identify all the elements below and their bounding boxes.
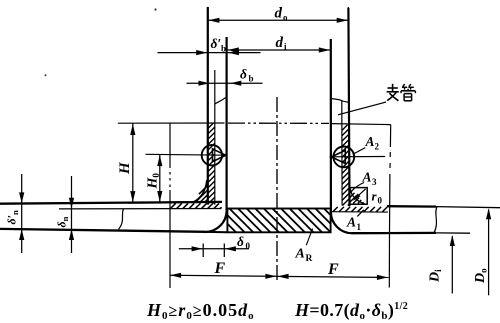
dimension delta_b (nozzle wall) xyxy=(187,82,263,84)
dimension d_o (nozzle outside diameter) xyxy=(208,19,348,21)
right nozzle mid (thickness) line xyxy=(341,101,343,206)
left nozzle break curve xyxy=(215,97,227,104)
svg-text:3: 3 xyxy=(372,177,377,187)
A3 leader line xyxy=(352,183,364,191)
svg-text:H: H xyxy=(117,161,133,175)
zhiguan (branch pipe) leader line xyxy=(338,102,386,115)
scan speck top xyxy=(154,8,156,10)
reinforcement height chain line across bore xyxy=(228,122,329,124)
A1 hatched excess-shell band left xyxy=(170,203,175,208)
svg-text:A: A xyxy=(365,134,375,149)
nozzle vertical centerline (chain) xyxy=(276,97,278,283)
svg-text:A: A xyxy=(295,247,305,262)
right A1 zone bottom boundary line xyxy=(332,211,389,213)
dimension delta_n (shell) xyxy=(71,176,73,253)
shell right plate top surface line (thin part) xyxy=(436,207,500,208)
shell left plate nominal-thickness line xyxy=(59,208,222,210)
svg-text:δ′: δ′ xyxy=(211,36,222,51)
A3 fillet weld square with r0 radius arrow xyxy=(350,188,368,205)
shell left plate break line xyxy=(119,209,124,230)
svg-text:b: b xyxy=(249,74,254,84)
svg-text:2: 2 xyxy=(375,142,380,152)
right reinforcement zone box right edge xyxy=(389,125,391,147)
dimension F (left reinforcement range) xyxy=(170,275,278,276)
dimension delta'_n (shell) xyxy=(21,174,23,253)
right F extension line xyxy=(388,233,390,288)
shell right plate bottom line (thin part) xyxy=(436,232,470,234)
svg-text:R: R xyxy=(306,254,313,264)
dimension H_0 xyxy=(159,155,161,203)
svg-text:H=0.7(do·δb)1/2: H=0.7(do·δb)1/2 xyxy=(294,300,408,322)
right opening flare arc xyxy=(331,212,352,233)
A2 hatched nozzle strip right xyxy=(342,125,347,130)
shell left plate top surface line xyxy=(0,202,222,204)
right nozzle outer wall line xyxy=(348,8,349,206)
right reinforcement zone box top line xyxy=(331,124,391,125)
left weld point symbol (circle) xyxy=(202,145,222,165)
svg-text:A: A xyxy=(346,215,356,230)
left weld point symbol (triangle) xyxy=(213,149,226,162)
shell right plate bottom (inner) surface line (thick part) xyxy=(352,232,437,235)
dimension delta'_b (nozzle wall) xyxy=(158,52,261,54)
svg-text:F: F xyxy=(327,261,339,278)
A_R required reinforcement area (hatched rect) xyxy=(227,209,330,233)
dimension F (right reinforcement range) xyxy=(277,276,389,277)
shell right plate break line xyxy=(434,207,437,233)
left fillet weld boundary curve xyxy=(192,180,207,203)
left opening flare arc xyxy=(205,211,227,232)
H0 level line left (through weld point) xyxy=(146,153,226,156)
svg-text:d: d xyxy=(276,35,284,51)
svg-text:A: A xyxy=(362,170,372,185)
dimension H (reinforcement height) xyxy=(132,123,134,202)
svg-text:F: F xyxy=(214,260,226,277)
left nozzle outer wall line xyxy=(207,7,209,205)
svg-text:d: d xyxy=(275,6,283,22)
label zhiguan (branch pipe, hand-drawn CJK) xyxy=(388,87,398,89)
reinforcement height line H (left, solid) xyxy=(118,122,225,124)
svg-text:δ: δ xyxy=(237,234,244,249)
dimension d_i (nozzle inside diameter) xyxy=(227,49,330,51)
dimension D_o (shell outside diameter) xyxy=(488,210,490,296)
A2 hatched nozzle strip left xyxy=(208,123,213,128)
dimension delta_0 (flare width) xyxy=(179,248,249,250)
A2 leader line xyxy=(353,148,366,155)
dimension D_i (shell inside diameter) xyxy=(451,236,453,293)
svg-text:0: 0 xyxy=(246,241,251,251)
right nozzle inner wall line xyxy=(330,39,332,212)
svg-text:1: 1 xyxy=(357,222,362,232)
right nozzle break wavy line xyxy=(331,98,349,102)
left fillet weld hatch xyxy=(199,185,208,194)
scan speck left xyxy=(45,74,47,76)
svg-text:b: b xyxy=(221,44,226,54)
right weld point symbol (triangle) xyxy=(331,150,345,163)
A1 hatched excess-shell band right xyxy=(333,207,338,212)
right weld point symbol (circle) xyxy=(333,147,354,168)
shell left plate bottom (inner) surface line xyxy=(0,229,205,232)
H0 level line right (through weld point) xyxy=(330,156,386,158)
A_R leader line xyxy=(306,229,312,246)
svg-text:0: 0 xyxy=(378,196,383,206)
A1 leader line xyxy=(357,210,364,217)
svg-text:o: o xyxy=(283,13,288,23)
left nozzle inner wall line xyxy=(226,37,228,211)
left reinforcement zone boundary / weld seam line xyxy=(169,123,171,168)
shell right plate top surface line (thick part) xyxy=(387,205,436,208)
svg-text:δ: δ xyxy=(240,67,247,82)
left nozzle mid (thickness) line xyxy=(214,70,216,205)
